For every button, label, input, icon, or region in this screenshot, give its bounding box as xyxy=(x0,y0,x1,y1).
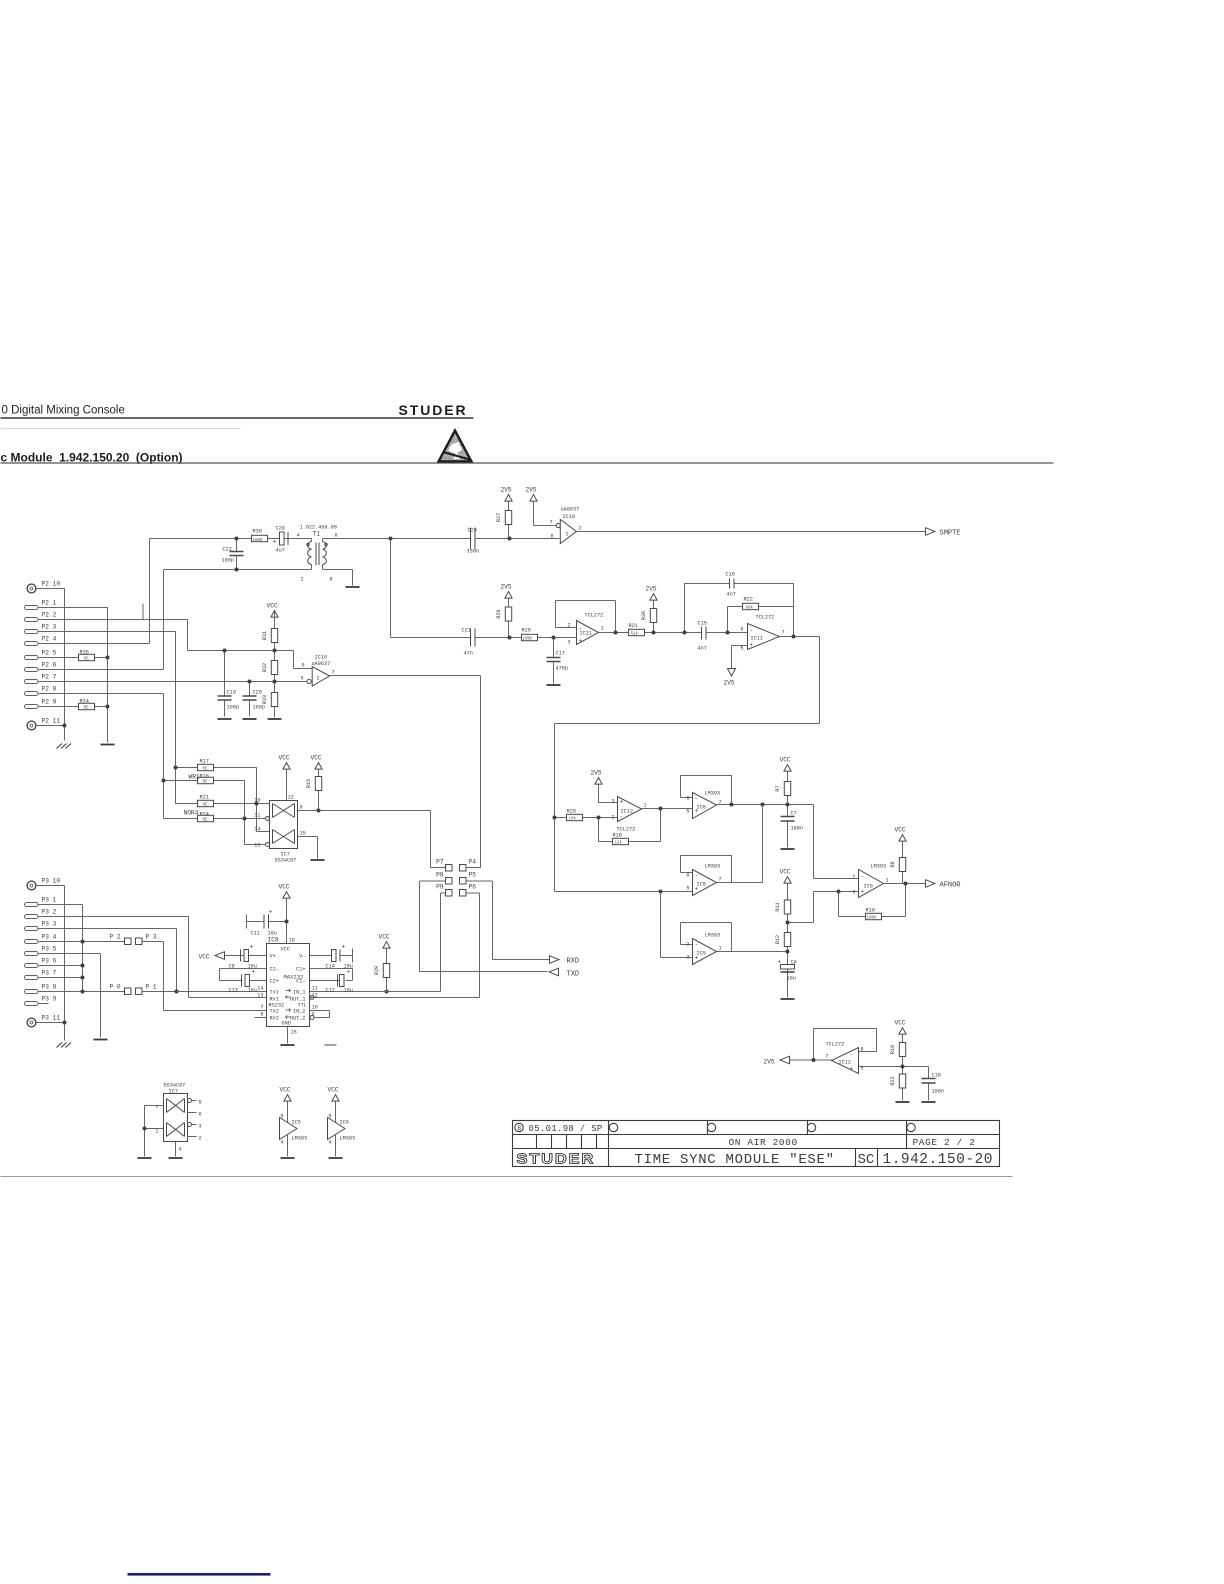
svg-text:3: 3 xyxy=(567,640,570,646)
svg-text:100k: 100k xyxy=(867,916,878,921)
svg-text:-: - xyxy=(850,1052,854,1059)
svg-text:P2 11: P2 11 xyxy=(42,718,61,725)
svg-text:R20: R20 xyxy=(567,809,576,815)
svg-text:2V5: 2V5 xyxy=(501,487,512,494)
svg-text:+: + xyxy=(850,1066,854,1073)
svg-text:P7: P7 xyxy=(436,859,444,866)
svg-text:P2 5: P2 5 xyxy=(42,650,57,657)
svg-text:P 1: P 1 xyxy=(146,984,157,991)
svg-text:11: 11 xyxy=(312,986,318,992)
svg-text:2: 2 xyxy=(579,526,582,532)
svg-text:0E: 0E xyxy=(203,819,209,823)
svg-text:GND: GND xyxy=(282,1021,291,1027)
svg-text:6: 6 xyxy=(740,627,743,633)
svg-text:P2 7: P2 7 xyxy=(42,674,57,681)
svg-text:C2-: C2- xyxy=(270,967,279,973)
svg-text:7: 7 xyxy=(550,520,553,526)
svg-text:6: 6 xyxy=(335,533,338,539)
svg-text:-: - xyxy=(695,942,699,949)
svg-text:8: 8 xyxy=(330,577,333,583)
svg-text:VCC: VCC xyxy=(279,884,290,891)
svg-text:-: - xyxy=(695,796,699,803)
svg-text:C1+: C1+ xyxy=(296,967,305,973)
svg-text:VCC: VCC xyxy=(279,755,290,762)
svg-text:VCC: VCC xyxy=(311,755,322,762)
svg-text:IC5: IC5 xyxy=(292,1120,301,1126)
svg-text:VCC: VCC xyxy=(199,954,210,961)
svg-text:T1: T1 xyxy=(313,531,321,538)
svg-text:2: 2 xyxy=(852,875,855,881)
svg-text:VCC: VCC xyxy=(780,869,791,876)
svg-text:C17: C17 xyxy=(556,651,565,657)
svg-text:V+: V+ xyxy=(270,954,276,960)
svg-text:V-: V- xyxy=(299,954,305,960)
svg-text:R17: R17 xyxy=(200,759,209,765)
svg-text:C16: C16 xyxy=(726,572,735,578)
svg-text:5: 5 xyxy=(686,886,689,892)
svg-text:C28: C28 xyxy=(276,526,285,532)
svg-text:WR1: WR1 xyxy=(189,774,200,781)
svg-text:7: 7 xyxy=(782,630,785,636)
svg-text:+: + xyxy=(347,969,351,976)
svg-text:B: B xyxy=(518,1125,522,1132)
svg-text:P5: P5 xyxy=(469,872,477,879)
svg-text:14: 14 xyxy=(254,827,260,833)
svg-text:C11: C11 xyxy=(251,931,260,937)
svg-text:180R: 180R xyxy=(253,539,264,543)
svg-text:IN_1: IN_1 xyxy=(293,990,305,996)
svg-text:8: 8 xyxy=(328,1114,331,1120)
svg-text:TCL272: TCL272 xyxy=(585,613,604,619)
svg-text:R15: R15 xyxy=(306,779,312,788)
svg-text:P4: P4 xyxy=(469,859,477,866)
svg-text:P3 2: P3 2 xyxy=(42,909,57,916)
svg-text:TXD: TXD xyxy=(567,971,580,979)
svg-text:R21: R21 xyxy=(629,623,638,629)
svg-text:P3 3: P3 3 xyxy=(42,921,57,928)
svg-text:DS34C87: DS34C87 xyxy=(275,858,297,864)
svg-text:P6: P6 xyxy=(469,884,477,891)
svg-text:+: + xyxy=(250,944,254,951)
svg-text:2: 2 xyxy=(301,577,304,583)
svg-text:470p: 470p xyxy=(556,666,568,672)
svg-text:R26: R26 xyxy=(496,609,502,618)
svg-text:C15: C15 xyxy=(698,621,707,627)
svg-text:15: 15 xyxy=(291,1030,297,1036)
svg-text:6: 6 xyxy=(686,796,689,802)
svg-text:2V5: 2V5 xyxy=(501,584,512,591)
svg-text:12: 12 xyxy=(288,795,294,801)
svg-text:P3 9: P3 9 xyxy=(42,996,57,1003)
svg-text:R27: R27 xyxy=(496,513,502,522)
svg-text:LM393: LM393 xyxy=(705,791,721,797)
svg-text:-: - xyxy=(579,626,583,633)
svg-text:P2 2: P2 2 xyxy=(42,612,57,619)
svg-text:LM393: LM393 xyxy=(340,1136,356,1142)
svg-text:P3 7: P3 7 xyxy=(42,970,57,977)
svg-text:+: + xyxy=(695,955,699,962)
svg-text:7: 7 xyxy=(332,670,335,676)
svg-text:SMPTE: SMPTE xyxy=(940,530,961,538)
svg-text:12k: 12k xyxy=(615,841,623,846)
svg-text:5: 5 xyxy=(740,646,743,652)
svg-text:R16: R16 xyxy=(200,774,209,780)
svg-text:4: 4 xyxy=(179,1147,182,1153)
svg-text:C14: C14 xyxy=(326,964,335,970)
svg-text:3: 3 xyxy=(199,1124,202,1130)
svg-text:8: 8 xyxy=(280,1114,283,1120)
svg-text:7: 7 xyxy=(825,1054,828,1060)
svg-text:C29: C29 xyxy=(468,528,477,534)
svg-text:AFNOR: AFNOR xyxy=(940,882,962,890)
svg-text:11: 11 xyxy=(254,813,260,819)
svg-text:R10: R10 xyxy=(866,908,875,914)
svg-text:1.942.150-20: 1.942.150-20 xyxy=(883,1152,993,1168)
svg-text:4u7: 4u7 xyxy=(276,548,285,554)
svg-text:-: - xyxy=(620,814,624,821)
svg-text:1: 1 xyxy=(155,1129,158,1135)
svg-text:LM393: LM393 xyxy=(705,864,721,870)
svg-text:uA9637: uA9637 xyxy=(312,661,331,667)
svg-text:VCC: VCC xyxy=(280,1087,291,1094)
svg-text:VCC: VCC xyxy=(895,1020,906,1027)
svg-text:7: 7 xyxy=(260,1005,263,1011)
svg-text:TCL272: TCL272 xyxy=(756,615,775,621)
svg-text:R24: R24 xyxy=(200,812,209,818)
svg-text:10u: 10u xyxy=(787,976,796,982)
svg-text:14: 14 xyxy=(257,986,263,992)
svg-text:STUDER: STUDER xyxy=(399,402,468,418)
svg-text:R11: R11 xyxy=(775,902,781,911)
svg-text:2V5: 2V5 xyxy=(526,487,537,494)
svg-text:6: 6 xyxy=(686,873,689,879)
svg-text:330n: 330n xyxy=(467,549,479,555)
svg-text:R23: R23 xyxy=(890,1076,896,1085)
svg-text:R31: R31 xyxy=(262,631,268,640)
svg-text:R32: R32 xyxy=(262,663,268,672)
svg-text:0E: 0E xyxy=(84,707,90,711)
svg-text:Tx2: Tx2 xyxy=(270,1009,279,1015)
svg-text:P3 6: P3 6 xyxy=(42,958,57,965)
svg-text:VCC: VCC xyxy=(281,947,290,953)
svg-text:0 Digital Mixing Console: 0 Digital Mixing Console xyxy=(2,405,125,417)
svg-text:100p: 100p xyxy=(227,705,239,711)
svg-text:IC8: IC8 xyxy=(268,937,279,944)
svg-text:100n: 100n xyxy=(791,826,803,832)
svg-text:OUT_2: OUT_2 xyxy=(290,1016,306,1022)
svg-text:7: 7 xyxy=(719,877,722,883)
svg-text:R30: R30 xyxy=(253,529,262,535)
svg-text:P3 8: P3 8 xyxy=(42,984,57,991)
svg-text:P 3: P 3 xyxy=(146,934,157,941)
svg-text:R7: R7 xyxy=(775,785,781,791)
svg-text:5: 5 xyxy=(686,809,689,815)
svg-text:1: 1 xyxy=(601,626,604,632)
svg-text:VCC: VCC xyxy=(379,934,390,941)
svg-text:2V5: 2V5 xyxy=(591,770,602,777)
svg-text:P2 6: P2 6 xyxy=(42,662,57,669)
svg-text:Tx1: Tx1 xyxy=(270,990,279,996)
svg-text:13: 13 xyxy=(257,993,263,999)
svg-text:C20: C20 xyxy=(253,690,262,696)
svg-text:+: + xyxy=(252,969,256,976)
svg-text:P2 4: P2 4 xyxy=(42,636,57,643)
svg-text:IC6: IC6 xyxy=(864,884,873,890)
svg-text:+: + xyxy=(579,638,583,645)
svg-text:IC6: IC6 xyxy=(340,1120,349,1126)
svg-text:-: - xyxy=(750,628,754,635)
svg-text:+: + xyxy=(750,642,754,649)
svg-text:IC10: IC10 xyxy=(563,514,575,520)
svg-text:3: 3 xyxy=(611,799,614,805)
svg-text:C18: C18 xyxy=(932,1073,941,1079)
svg-text:15: 15 xyxy=(300,831,306,837)
svg-text:10: 10 xyxy=(312,1005,318,1011)
svg-text:MAX232: MAX232 xyxy=(284,974,304,981)
svg-text:100k: 100k xyxy=(523,637,534,642)
svg-text:68k: 68k xyxy=(746,606,754,611)
svg-text:2: 2 xyxy=(566,532,569,538)
svg-text:8: 8 xyxy=(551,534,554,540)
svg-text:P9: P9 xyxy=(436,884,444,891)
svg-text:-: - xyxy=(695,873,699,880)
svg-text:47n: 47n xyxy=(464,651,473,657)
svg-text:Rx2: Rx2 xyxy=(270,1016,279,1022)
svg-text:1: 1 xyxy=(719,946,722,952)
svg-text:8: 8 xyxy=(260,1012,263,1018)
svg-text:P3 1: P3 1 xyxy=(42,897,57,904)
svg-text:2: 2 xyxy=(611,815,614,821)
svg-text:R34: R34 xyxy=(80,699,89,705)
svg-text:ON AIR 2000: ON AIR 2000 xyxy=(729,1137,798,1148)
svg-text:4: 4 xyxy=(328,1140,331,1146)
svg-text:P2 8: P2 8 xyxy=(42,686,57,693)
svg-text:IC10: IC10 xyxy=(315,655,327,661)
svg-text:0E: 0E xyxy=(203,781,209,785)
svg-text:R25: R25 xyxy=(522,628,531,634)
svg-text:0E: 0E xyxy=(84,658,90,662)
svg-text:R33: R33 xyxy=(262,695,268,704)
svg-text:7: 7 xyxy=(155,1105,158,1111)
svg-text:13: 13 xyxy=(254,843,260,849)
svg-text:4n7: 4n7 xyxy=(727,592,736,598)
svg-text:5: 5 xyxy=(861,1066,864,1072)
svg-text:P 2: P 2 xyxy=(110,934,121,941)
svg-text:C22: C22 xyxy=(223,547,232,553)
svg-text:C19: C19 xyxy=(227,690,236,696)
svg-text:R36: R36 xyxy=(641,611,647,620)
svg-text:LM393: LM393 xyxy=(292,1136,308,1142)
svg-text:100p: 100p xyxy=(253,705,265,711)
svg-text:C12: C12 xyxy=(326,988,335,994)
svg-text:TCL272: TCL272 xyxy=(826,1042,845,1048)
svg-text:VCC: VCC xyxy=(895,827,906,834)
svg-text:+: + xyxy=(269,909,273,916)
svg-text:2: 2 xyxy=(199,1136,202,1142)
svg-text:C7: C7 xyxy=(791,811,797,817)
svg-text:P3 4: P3 4 xyxy=(42,934,57,941)
svg-text:C2+: C2+ xyxy=(270,979,279,985)
svg-text:0E: 0E xyxy=(203,768,209,772)
svg-text:10: 10 xyxy=(254,798,260,804)
svg-text:6: 6 xyxy=(302,663,305,669)
svg-text:P3 5: P3 5 xyxy=(42,946,57,953)
svg-text:P2 1: P2 1 xyxy=(42,600,57,607)
svg-text:9: 9 xyxy=(300,805,303,811)
svg-text:+: + xyxy=(695,886,699,893)
svg-text:8: 8 xyxy=(861,1047,864,1053)
svg-text:3: 3 xyxy=(686,955,689,961)
svg-text:100n: 100n xyxy=(932,1089,944,1095)
svg-text:2: 2 xyxy=(317,676,320,682)
svg-text:NOR4: NOR4 xyxy=(184,810,199,817)
svg-text:6: 6 xyxy=(199,1112,202,1118)
svg-text:uA9637: uA9637 xyxy=(561,507,580,513)
svg-text:16: 16 xyxy=(289,938,295,944)
svg-text:+: + xyxy=(861,889,865,896)
svg-text:1: 1 xyxy=(886,878,889,884)
svg-text:LM393: LM393 xyxy=(871,864,887,870)
svg-text:TIME SYNC MODULE "ESE": TIME SYNC MODULE "ESE" xyxy=(635,1152,835,1168)
svg-text:-: - xyxy=(861,874,865,881)
svg-text:R8: R8 xyxy=(890,861,896,867)
svg-text:0E: 0E xyxy=(203,804,209,808)
svg-text:C13: C13 xyxy=(229,988,238,994)
svg-text:2V5: 2V5 xyxy=(724,680,735,687)
svg-text:+: + xyxy=(273,539,277,546)
svg-text:51k: 51k xyxy=(631,632,639,637)
svg-text:R21: R21 xyxy=(200,795,209,801)
svg-text:R19: R19 xyxy=(890,1045,896,1054)
svg-text:+: + xyxy=(695,808,699,815)
svg-text:10k: 10k xyxy=(569,817,577,822)
svg-text:10u: 10u xyxy=(248,988,257,994)
svg-text:R29: R29 xyxy=(374,966,380,975)
svg-text:P 0: P 0 xyxy=(110,984,121,991)
svg-text:3: 3 xyxy=(852,890,855,896)
svg-text:R18: R18 xyxy=(613,833,622,839)
svg-text:05.01.98 / SP: 05.01.98 / SP xyxy=(529,1124,603,1134)
svg-text:100p: 100p xyxy=(222,558,234,564)
svg-text:P2 10: P2 10 xyxy=(42,581,61,588)
svg-text:P3 10: P3 10 xyxy=(42,878,61,885)
svg-text:VCC: VCC xyxy=(328,1087,339,1094)
svg-text:P2 9: P2 9 xyxy=(42,699,57,706)
svg-text:SC: SC xyxy=(858,1152,875,1168)
svg-text:R22: R22 xyxy=(744,597,753,603)
svg-text:2: 2 xyxy=(686,942,689,948)
svg-text:+: + xyxy=(778,959,782,966)
svg-text:C8: C8 xyxy=(229,964,235,970)
svg-text:C21: C21 xyxy=(462,628,471,634)
svg-text:10u: 10u xyxy=(344,988,353,994)
svg-text:5: 5 xyxy=(301,676,304,682)
svg-text:+: + xyxy=(620,799,624,806)
svg-text:4: 4 xyxy=(297,533,300,539)
svg-text:4: 4 xyxy=(280,1140,283,1146)
svg-text:STUDER: STUDER xyxy=(517,1151,596,1167)
svg-text:LM393: LM393 xyxy=(705,933,721,939)
svg-text:RXD: RXD xyxy=(567,958,580,966)
svg-text:P8: P8 xyxy=(436,872,444,879)
svg-text:+: + xyxy=(342,944,346,951)
svg-text:VCC: VCC xyxy=(267,603,278,610)
svg-text:IN_2: IN_2 xyxy=(293,1009,305,1015)
svg-text:5: 5 xyxy=(199,1100,202,1106)
svg-text:R35: R35 xyxy=(80,650,89,656)
svg-text:2V5: 2V5 xyxy=(764,1059,775,1066)
svg-text:R12: R12 xyxy=(775,935,781,944)
svg-text:2V5: 2V5 xyxy=(646,586,657,593)
svg-text:P2 3: P2 3 xyxy=(42,624,57,631)
svg-text:P3 11: P3 11 xyxy=(42,1015,61,1022)
svg-text:1: 1 xyxy=(644,803,647,809)
svg-text:VCC: VCC xyxy=(780,757,791,764)
svg-text:TCL272: TCL272 xyxy=(617,827,636,833)
svg-text:PAGE 2 / 2: PAGE 2 / 2 xyxy=(913,1137,976,1148)
svg-text:C6: C6 xyxy=(791,960,797,966)
svg-text:4n7: 4n7 xyxy=(698,646,707,652)
